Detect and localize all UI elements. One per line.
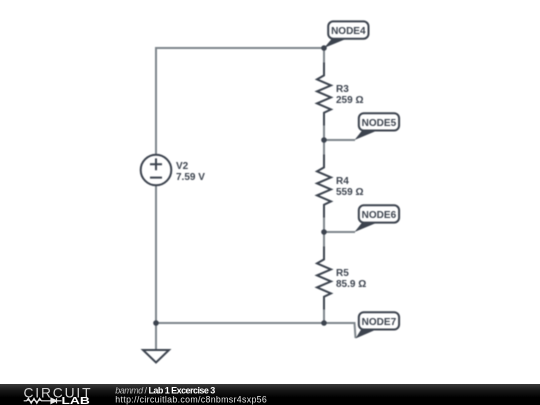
svg-text:259 Ω: 259 Ω: [336, 95, 363, 106]
ground: [143, 350, 169, 363]
svg-text:V2: V2: [176, 161, 189, 172]
svg-text:R3: R3: [336, 84, 349, 95]
svg-text:NODE4: NODE4: [331, 26, 366, 37]
wire left vertical lower: [155, 185, 157, 350]
wire right segment R3 to NODE5: [323, 126, 325, 155]
node junction dot NODE7: [321, 320, 327, 326]
svg-text:NODE7: NODE7: [362, 317, 397, 328]
node flag NODE5: [355, 113, 400, 140]
voltage source V2: [141, 155, 172, 186]
wire stub to NODE6 flag: [324, 231, 355, 233]
wire left vertical upper: [155, 47, 157, 155]
footer bar: [0, 384, 540, 405]
svg-text:7.59 V: 7.59 V: [176, 172, 205, 183]
node junction dot ground: [153, 320, 159, 326]
resistor R5: [317, 247, 331, 310]
svg-text:http://circuitlab.com/c8nbmsr4: http://circuitlab.com/c8nbmsr4sxp56: [115, 395, 267, 405]
wire right segment R4 to NODE6: [323, 218, 325, 247]
svg-text:R5: R5: [336, 268, 349, 279]
node junction dot NODE4: [321, 45, 327, 51]
wire stub to NODE5 flag: [324, 139, 355, 141]
wire right segment R5 to NODE7: [323, 310, 325, 324]
wire bottom horizontal: [156, 323, 356, 338]
label R5 value: [336, 268, 366, 290]
node flag NODE6: [355, 205, 400, 232]
resistor R4: [317, 155, 331, 218]
node junction dot NODE6: [321, 229, 327, 235]
svg-text:NODE6: NODE6: [362, 210, 397, 221]
node flag NODE4: [324, 21, 369, 48]
wire right segment NODE4 to R3: [323, 48, 325, 63]
svg-text:NODE5: NODE5: [362, 118, 397, 129]
svg-text:LAB: LAB: [62, 396, 90, 405]
svg-text:R4: R4: [336, 176, 349, 187]
node flag NODE7: [356, 312, 400, 338]
footer logo glyph resistor-diode: [24, 398, 62, 403]
label V2 value: [176, 161, 205, 183]
label R4 value: [336, 176, 363, 198]
resistor R3: [317, 63, 331, 126]
svg-text:85.9 Ω: 85.9 Ω: [336, 279, 366, 290]
label R3 value: [336, 84, 363, 106]
svg-text:559 Ω: 559 Ω: [336, 187, 363, 198]
wire top horizontal: [156, 47, 324, 49]
node junction dot NODE5: [321, 137, 327, 143]
